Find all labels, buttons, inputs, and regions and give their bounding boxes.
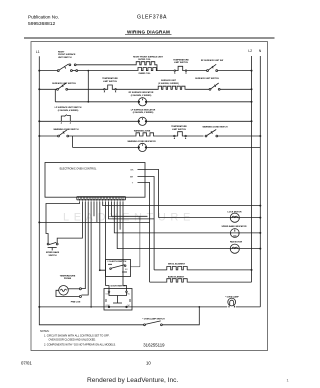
svg-text:5995368812: 5995368812 bbox=[28, 21, 55, 27]
wire pin1 to speed bake switch bbox=[46, 202, 80, 243]
wire pin9 to row a bbox=[103, 202, 261, 206]
wire oven lamp row to N bbox=[236, 306, 260, 308]
relay K2 door switch box bbox=[104, 289, 132, 311]
svg-text:RF SURFACE UNIT SW: RF SURFACE UNIT SW bbox=[201, 59, 223, 62]
wire pin2 to speed bake switch bbox=[57, 202, 82, 243]
diagram border frame bbox=[31, 42, 268, 351]
wire bake row bbox=[150, 281, 166, 283]
indicator lamp surface indicator bbox=[138, 98, 147, 106]
svg-text:(2 SHOWN, 2 WIRED): (2 SHOWN, 2 WIRED) bbox=[131, 95, 152, 97]
switch SW3 surface unit switch left bbox=[57, 83, 68, 90]
svg-text:(2 SHOWN, 2 WIRED): (2 SHOWN, 2 WIRED) bbox=[133, 112, 154, 114]
wire branch rung5 to rung6 bbox=[72, 136, 74, 147]
svg-text:10: 10 bbox=[146, 361, 151, 366]
wire branch rung2 to rung3 bbox=[54, 89, 56, 102]
switch SW8 speed bake switch bbox=[47, 242, 58, 250]
thermal limiter TL3 bbox=[175, 132, 185, 136]
svg-text:COM: COM bbox=[106, 305, 111, 307]
wire rung2 to L2 bbox=[220, 88, 251, 90]
wire rung5 bbox=[186, 135, 203, 137]
L1 bus bbox=[39, 56, 143, 325]
wire rung2 to coil bbox=[116, 88, 157, 90]
svg-text:WARMING ZONE: WARMING ZONE bbox=[134, 129, 151, 132]
switch SW1 right front surface unit switch bbox=[57, 64, 77, 72]
horizontal rule bbox=[24, 37, 275, 38]
svg-text:NOTES:: NOTES: bbox=[40, 330, 50, 333]
wire pin6 stub bbox=[93, 202, 95, 217]
svg-text:PRB CON: PRB CON bbox=[71, 301, 81, 303]
connector P1 body bbox=[77, 196, 126, 198]
svg-text:OUTER COIL: OUTER COIL bbox=[138, 59, 151, 61]
svg-text:2. COMPONENTS WITH * DO NOT: 2. COMPONENTS WITH * DO NOT APPEAR ON AL… bbox=[44, 343, 116, 346]
wire L1 aux row bbox=[39, 221, 149, 223]
resistor broil element bbox=[166, 267, 188, 270]
wire rung1 lower pole bbox=[72, 70, 76, 72]
svg-text:* OVEN LAMP: * OVEN LAMP bbox=[225, 295, 239, 298]
svg-text:LF SURFACE UNIT SWITCH: LF SURFACE UNIT SWITCH bbox=[55, 106, 82, 109]
svg-text:SPEED BAKE: SPEED BAKE bbox=[46, 251, 60, 254]
wire rung4 mid bbox=[70, 120, 138, 122]
svg-text:Rendered by LeadVenture, Inc.: Rendered by LeadVenture, Inc. bbox=[87, 377, 178, 384]
connector P1 pins bbox=[78, 197, 124, 202]
svg-text:COM: COM bbox=[107, 261, 112, 263]
svg-text:COM: COM bbox=[106, 294, 111, 296]
svg-text:WARMING ZONE SWITCH: WARMING ZONE SWITCH bbox=[202, 126, 228, 129]
wire rung2 to switch bbox=[186, 88, 209, 90]
svg-text:* OVEN LAMP SWITCH: * OVEN LAMP SWITCH bbox=[142, 317, 165, 320]
svg-text:BROIL ELEMENT: BROIL ELEMENT bbox=[168, 264, 185, 266]
wire rung6 to N bbox=[147, 146, 261, 148]
wire lock motor row bbox=[159, 217, 261, 219]
svg-text:316255119: 316255119 bbox=[143, 342, 165, 347]
wire pin10 to door switch left bbox=[106, 202, 109, 292]
svg-text:LATCH SWITCH: LATCH SWITCH bbox=[111, 260, 127, 263]
wire rung1 to switch bbox=[187, 70, 207, 72]
svg-text:SURFACE UNIT SWITCH: SURFACE UNIT SWITCH bbox=[52, 82, 76, 85]
notes block bbox=[40, 330, 116, 346]
svg-text:RF SURFACE INDICATOR: RF SURFACE INDICATOR bbox=[129, 91, 154, 94]
svg-text:OVEN DOOR CLOSED AND UNLOCKED.: OVEN DOOR CLOSED AND UNLOCKED. bbox=[49, 339, 97, 342]
svg-text:INNER COIL: INNER COIL bbox=[139, 73, 152, 75]
pigtail wire labels bbox=[106, 169, 134, 306]
svg-text:L1: L1 bbox=[36, 50, 40, 54]
indicator lamp speed bake indicator bbox=[230, 229, 240, 238]
svg-text:RIGHT: RIGHT bbox=[58, 51, 65, 53]
wire pin8 to latch switch bbox=[100, 202, 106, 270]
svg-text:PROBE: PROBE bbox=[64, 278, 72, 280]
wire rung6 bbox=[73, 146, 139, 148]
resistor outer coil bbox=[136, 62, 156, 65]
relay K1 latch switch box bbox=[106, 216, 140, 276]
svg-text:Publication No.: Publication No. bbox=[28, 15, 59, 20]
svg-text:DOOR SWITCH: DOOR SWITCH bbox=[111, 285, 126, 287]
svg-text:UNIT SWITCH: UNIT SWITCH bbox=[58, 57, 72, 59]
N bus bbox=[259, 56, 261, 307]
svg-text:LIMIT SWITCH: LIMIT SWITCH bbox=[103, 81, 118, 83]
wire rung4 left from L1 bbox=[39, 120, 61, 122]
wire EOC pigtail BK bbox=[138, 170, 159, 218]
wire pin15 stub bbox=[119, 202, 121, 230]
svg-text:1. CIRCUIT SHOWN WITH ALL CON: 1. CIRCUIT SHOWN WITH ALL CONTROLS SET T… bbox=[44, 334, 110, 337]
switch SW7 warming zone switch right bbox=[205, 130, 218, 137]
wire pin4 to probe lower bbox=[82, 202, 89, 295]
wire rung5 mid bbox=[69, 135, 135, 137]
wire rung2 left from L1 bbox=[39, 88, 56, 90]
svg-text:GLEF378A: GLEF378A bbox=[137, 15, 167, 21]
svg-text:LIMIT SWITCH: LIMIT SWITCH bbox=[172, 129, 187, 131]
thermal limiter TL1 bbox=[175, 66, 185, 70]
wire pin3 to probe upper bbox=[82, 202, 86, 289]
svg-text:WIRING DIAGRAM: WIRING DIAGRAM bbox=[127, 30, 170, 35]
svg-text:RIGHT FRONT SURFACE UNIT: RIGHT FRONT SURFACE UNIT bbox=[133, 55, 163, 58]
svg-text:WARMING ZONE SWITCH: WARMING ZONE SWITCH bbox=[53, 128, 79, 131]
wire rung5 bbox=[156, 135, 174, 137]
switch SW5 lf surface unit switch (bump thermostat) bbox=[61, 115, 71, 124]
wire pin12 nested bend bbox=[111, 202, 147, 217]
wire rung5 to N bbox=[218, 135, 261, 137]
svg-text:SURFACE UNIT: SURFACE UNIT bbox=[161, 79, 177, 82]
svg-text:TEMPERATURE: TEMPERATURE bbox=[102, 77, 118, 80]
wire branch rung1 to rung3 bbox=[87, 71, 89, 102]
wire pin11 nested bend bbox=[109, 202, 155, 219]
svg-text:ELECTRONIC OVEN CONTROL: ELECTRONIC OVEN CONTROL bbox=[60, 167, 97, 170]
wire lamp switch row bbox=[162, 307, 199, 325]
svg-text:TEMPERATURE: TEMPERATURE bbox=[173, 58, 189, 61]
wire rung1 upper pole bbox=[76, 64, 135, 66]
wire rung2 mid bbox=[68, 88, 104, 90]
svg-text:(2 SHOWN, 2 WIRED): (2 SHOWN, 2 WIRED) bbox=[158, 83, 179, 85]
resistor inner coil bbox=[137, 68, 157, 71]
svg-text:BR: BR bbox=[130, 176, 133, 178]
motor M2 fan motor bbox=[230, 244, 240, 253]
op-amp EOC electronic oven control box bbox=[45, 163, 145, 198]
svg-text:LOCK MOTOR: LOCK MOTOR bbox=[228, 211, 242, 213]
switch SW6 warming zone switch left bbox=[58, 130, 69, 137]
wire rung4 to L2 bbox=[147, 120, 252, 122]
wire rung5 left from L1 bbox=[39, 135, 57, 137]
svg-text:FRONT SURFACE: FRONT SURFACE bbox=[58, 53, 76, 56]
wire oven lamp row bbox=[39, 306, 227, 308]
wire bake row to L2 bbox=[188, 281, 252, 283]
lamp DS1 oven lamp bbox=[228, 298, 236, 307]
indicator lamp warming zone indicator bbox=[138, 143, 147, 151]
motor M1 lock motor bbox=[230, 213, 240, 222]
svg-text:07/01: 07/01 bbox=[21, 361, 32, 366]
svg-text:BAKE ELEMENT: BAKE ELEMENT bbox=[168, 276, 185, 279]
wire broil row bbox=[154, 269, 166, 271]
svg-text:SURFACE UNIT SWITCH: SURFACE UNIT SWITCH bbox=[195, 77, 219, 80]
thermistor RTD oven temperature probe bbox=[56, 286, 81, 298]
wire pin5 to lamp row bbox=[90, 202, 92, 307]
wire rung1 to L2 bbox=[218, 70, 252, 72]
svg-text:WARMING ZONE INDICATOR: WARMING ZONE INDICATOR bbox=[127, 140, 156, 143]
svg-text:LF SURFACE INDICATOR: LF SURFACE INDICATOR bbox=[131, 108, 156, 111]
wire pin7 stub bbox=[96, 202, 98, 223]
wire rung1 left from L1 bbox=[39, 70, 57, 72]
wire pin16 to door switch right bbox=[123, 202, 127, 292]
switch SW9 oven lamp switch bbox=[144, 321, 163, 326]
resistor warming zone element bbox=[135, 133, 156, 136]
svg-text:SPEED BAKE INDICATOR: SPEED BAKE INDICATOR bbox=[221, 225, 247, 228]
resistor surface unit element bbox=[158, 86, 186, 89]
svg-text:FAN MOTOR: FAN MOTOR bbox=[230, 241, 243, 244]
svg-text:TEMPERATURE: TEMPERATURE bbox=[171, 125, 187, 128]
thermal limiter TL2 bbox=[105, 85, 115, 89]
wire coil join bbox=[156, 65, 175, 71]
wire rung3 to L2 bbox=[147, 101, 252, 103]
L2 bus bbox=[251, 56, 253, 282]
svg-text:(2 SHOWN, 4 WIRED): (2 SHOWN, 4 WIRED) bbox=[58, 109, 79, 112]
wire rung3 bbox=[55, 101, 138, 103]
wire broil row to L2 bbox=[188, 269, 252, 271]
switch SW4 surface unit switch right bbox=[209, 83, 220, 90]
svg-text:TEMPERATURE: TEMPERATURE bbox=[60, 274, 76, 277]
wire EOC pigtail BR bbox=[138, 177, 155, 270]
wire pin13 to speed bake indicator row bbox=[114, 202, 260, 233]
wire EOC pigtail Y bbox=[138, 183, 150, 283]
wire pin14 to fan motor row bbox=[117, 202, 260, 249]
indicator lamp lf surface indicator bbox=[138, 117, 147, 125]
svg-text:L2: L2 bbox=[248, 49, 252, 53]
svg-text:LIMIT SWITCH: LIMIT SWITCH bbox=[174, 62, 189, 64]
resistor bake element bbox=[166, 279, 188, 282]
svg-text:SWITCH: SWITCH bbox=[48, 255, 57, 257]
switch SW2 rf surface unit sw bbox=[207, 64, 218, 71]
